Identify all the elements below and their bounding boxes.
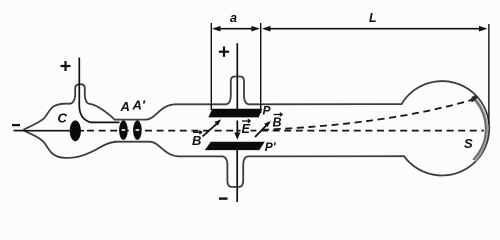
svg-text:C: C xyxy=(58,111,68,126)
cathode support wire through bulb xyxy=(25,130,85,132)
minus terminal of plates xyxy=(219,197,228,199)
B field arrow (left, diagonal) xyxy=(203,124,217,137)
beam gap marks inside anodes xyxy=(122,129,126,131)
svg-text:B: B xyxy=(273,115,282,129)
anode A' electrode xyxy=(133,121,142,140)
E field arrow (downward between plates) xyxy=(236,121,238,134)
beam impact spot on screen xyxy=(470,95,478,103)
B field arrow (right, diagonal) xyxy=(255,125,266,137)
svg-text:L: L xyxy=(369,11,377,25)
bottom plate feed-through bump xyxy=(223,156,249,187)
svg-text:E: E xyxy=(242,122,251,136)
anode A electrode xyxy=(119,121,128,140)
deflected beam path (dashed, curves up to screen) xyxy=(262,100,472,130)
svg-text:a: a xyxy=(230,11,237,25)
dimension arrow a (double-headed) xyxy=(214,28,258,30)
main tube top wall (right of bump) xyxy=(249,103,402,105)
glass envelope: cathode bulb with chimney and nozzle xyxy=(24,77,489,187)
plus terminal of plates xyxy=(219,47,229,57)
bottom plate stem wire xyxy=(236,149,238,202)
svg-text:A: A xyxy=(120,99,130,114)
fluorescent screen band (inner shading) xyxy=(474,98,487,160)
anode feed wire from plus down chimney to anode A xyxy=(79,58,119,123)
cathode lead wire xyxy=(14,130,25,132)
cathode C electrode xyxy=(70,120,81,141)
bulb lower outline xyxy=(24,131,116,158)
main tube bottom wall (left of bump) xyxy=(180,155,223,157)
dimension arrow L (double-headed) xyxy=(264,28,486,30)
svg-text:S: S xyxy=(464,136,473,151)
dimension tick at plate right edge xyxy=(260,23,262,113)
main tube top wall (left of bump) xyxy=(176,103,226,105)
dimension tick at screen xyxy=(488,24,490,124)
deflection plate P' (bottom) xyxy=(205,142,265,150)
neck top wall xyxy=(115,104,177,119)
neck bottom wall xyxy=(115,142,181,157)
dimension tick at plate left edge xyxy=(210,23,212,110)
svg-text:P: P xyxy=(263,104,272,118)
main tube bottom wall (right of bump) xyxy=(248,155,404,157)
top plate feed-through bump xyxy=(226,77,249,105)
beam centerline (dashed, straight path) xyxy=(87,130,484,132)
svg-text:P′: P′ xyxy=(265,140,277,154)
svg-text:A′: A′ xyxy=(132,98,146,113)
spherical screen bulb xyxy=(402,81,490,175)
top plate stem wire xyxy=(236,43,238,110)
svg-text:B: B xyxy=(192,133,201,148)
deflection plate P (top) xyxy=(208,109,262,118)
anode plus terminal xyxy=(61,61,71,71)
cathode lead minus sign xyxy=(12,124,20,126)
fluorescent screen inner arc S xyxy=(472,97,486,160)
